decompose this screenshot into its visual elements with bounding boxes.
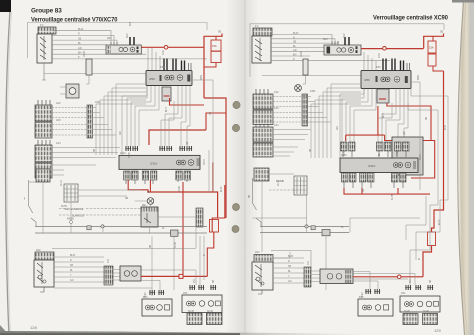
bar top pin group B: [159, 146, 172, 151]
svg-text:31/46: 31/46: [207, 311, 213, 313]
svg-text:Y/GN: Y/GN: [179, 186, 181, 192]
wires C2 C3 to pin column: [52, 108, 87, 136]
ground bus 31 right upper: [260, 226, 349, 228]
svg-text:SB: SB: [78, 37, 82, 40]
red tailgate supply bus right: [353, 276, 423, 278]
svg-text:Groupe 83: Groupe 83: [31, 8, 62, 15]
CEM supply wires up: [148, 48, 160, 70]
svg-text:14/2: 14/2: [274, 92, 279, 94]
tailgate wire labels right: [288, 256, 293, 283]
lock motor connector group M1: [124, 171, 139, 184]
CEM right output fan: [340, 82, 420, 158]
tailgate wire labels: [70, 255, 75, 282]
red tailgate supply bus: [141, 275, 207, 277]
antenna component right: [303, 59, 309, 84]
pin ticks above stack C4: [38, 140, 50, 145]
rear control module: [120, 266, 141, 281]
red riser to fuse right: [424, 34, 444, 49]
left diagram frame: [27, 23, 207, 59]
svg-text:31/55: 31/55: [61, 206, 67, 208]
svg-text:SB: SB: [249, 194, 251, 198]
door connector stack C5: [35, 163, 52, 178]
splice node right ground: [305, 225, 308, 228]
svg-text:16/28: 16/28: [84, 51, 86, 57]
tailgate bottom wire: [54, 287, 152, 289]
svg-text:R: R: [293, 36, 295, 39]
page gutter shading: [0, 0, 1, 1]
ladder connector rear right: [294, 176, 307, 195]
red main riser right side: [423, 71, 444, 277]
ground plate block BR: [423, 314, 438, 325]
svg-text:29/2: 29/2: [127, 33, 129, 38]
pin column connector right: [302, 94, 308, 126]
ground bus 31 upper: [35, 226, 207, 228]
wires C4R C5R: [273, 130, 311, 157]
svg-text:SB: SB: [293, 41, 297, 44]
door module bar 3/110: [119, 155, 200, 169]
svg-text:31/12: 31/12: [61, 180, 63, 186]
svg-text:31/45: 31/45: [392, 194, 394, 200]
svg-text:SB: SB: [70, 265, 74, 267]
ground junction box right: [322, 230, 330, 236]
red square splice: [179, 274, 183, 278]
svg-text:4/56: 4/56: [160, 67, 165, 69]
tailgate connector C6R: [254, 255, 273, 263]
bus risers right page: [308, 84, 362, 158]
svg-text:SB: SB: [426, 116, 428, 120]
svg-text:W/O SUNROOF: W/O SUNROOF: [65, 207, 84, 211]
svg-text:X/30: X/30: [379, 53, 381, 58]
driver door lock unit right: [392, 137, 423, 175]
wire colour labels: [78, 28, 84, 59]
fuse internal wires right: [433, 36, 444, 71]
siren module circle component: [60, 84, 79, 98]
ground bus 31 right lower: [260, 232, 349, 234]
bottom shadow: [0, 0, 1, 1]
red wire from relay to side bus: [170, 98, 205, 105]
svg-text:C301: C301: [95, 102, 101, 104]
CEM output harness fan: [122, 80, 213, 155]
wires C4 C5 right: [52, 148, 120, 176]
red supply bus under motors: [148, 192, 218, 218]
door connector stack C3R: [253, 110, 273, 125]
small circle unit right: [295, 85, 302, 92]
svg-text:SB: SB: [150, 244, 152, 248]
svg-text:15/1: 15/1: [410, 278, 412, 283]
relay below CEM right: [377, 89, 389, 103]
bottom center unit box horn: [182, 295, 222, 313]
red wire to rear lock: [207, 232, 214, 276]
svg-text:15/1: 15/1: [194, 278, 196, 283]
door connector stack C4: [35, 145, 52, 162]
svg-text:4/56: 4/56: [364, 78, 370, 82]
splice node on red wire right: [383, 47, 387, 51]
bottom unit pins BR: [405, 285, 433, 290]
wire colour labels right: [293, 32, 299, 61]
door connector stack C4R: [253, 127, 273, 142]
svg-text:40068: 40068: [67, 218, 74, 221]
svg-text:15/1: 15/1: [401, 293, 406, 295]
door connector stack C2R: [253, 94, 273, 109]
switch unit S80R driver door lock switch: [252, 36, 271, 63]
svg-text:KL30: KL30: [439, 219, 441, 225]
svg-text:Verrouillage centralisé XC90: Verrouillage centralisé XC90: [373, 14, 449, 21]
svg-text:BL/R: BL/R: [78, 28, 84, 31]
svg-text:BN: BN: [293, 54, 297, 57]
ground plate block B: [207, 313, 223, 325]
tailgate pin connector right: [304, 267, 311, 287]
tailgate top feed wire right: [271, 251, 311, 268]
svg-text:X/30: X/30: [163, 50, 165, 55]
tailgate lock unit: [34, 260, 54, 292]
pin ticks above stack C2: [38, 100, 50, 105]
wire harness switch to receiver right: [271, 35, 390, 61]
svg-text:15A: 15A: [212, 44, 217, 48]
lock motor connector group M2: [142, 171, 157, 184]
svg-text:3/110: 3/110: [120, 153, 126, 155]
rear door connector block right: [254, 168, 269, 181]
wire labels left page vertical: [24, 21, 223, 297]
svg-text:GR: GR: [293, 49, 297, 52]
red feed wire to door modules: [149, 130, 206, 145]
pin to module link wires: [113, 270, 120, 281]
interior lamp switch circle: [147, 198, 154, 207]
keypad receiver unit right: [324, 45, 361, 55]
svg-text:GN: GN: [120, 131, 122, 135]
red bus under motors right: [344, 188, 430, 194]
antenna component 86: [86, 59, 92, 84]
svg-text:BN: BN: [78, 52, 82, 55]
svg-text:R15: R15: [130, 21, 132, 26]
tailgate pin connector: [104, 266, 113, 285]
svg-text:14/3: 14/3: [274, 108, 279, 110]
svg-text:GR: GR: [404, 131, 406, 135]
red wire jog inner: [206, 113, 226, 130]
svg-text:31/12: 31/12: [278, 180, 280, 186]
right diagram frame: [250, 24, 444, 77]
red fuse box rear: [210, 220, 219, 233]
svg-text:31/45: 31/45: [188, 311, 194, 313]
svg-text:30/15: 30/15: [204, 159, 206, 165]
wires rear area right: [253, 174, 421, 290]
lock motor connector group M3: [176, 171, 191, 182]
red wire jog right side: [204, 98, 226, 218]
svg-text:SB: SB: [288, 266, 292, 268]
svg-text:BL/R: BL/R: [70, 255, 75, 257]
rear control module right: [320, 269, 353, 284]
svg-text:SUNROOF: SUNROOF: [72, 213, 85, 217]
interior switch line: [29, 180, 36, 227]
gray wires rear module right: [273, 252, 415, 289]
wire labels right page horizontal: [255, 26, 429, 313]
ground plate block A: [187, 313, 202, 325]
lock motor group below M6R: [392, 173, 407, 188]
red wire motor group M1 drop: [128, 180, 148, 192]
red wire motor group M2 drop: [149, 180, 151, 192]
svg-text:3/110: 3/110: [368, 164, 376, 168]
ground drop wires: [43, 182, 174, 296]
rear door connector block: [36, 169, 50, 182]
svg-text:4/56: 4/56: [376, 67, 381, 69]
svg-text:C301: C301: [310, 91, 316, 93]
svg-text:14/4: 14/4: [56, 143, 61, 145]
bottom unit box siren right: [358, 299, 393, 316]
svg-text:KL30: KL30: [221, 186, 223, 192]
svg-text:29/2: 29/2: [344, 33, 346, 38]
svg-text:SB: SB: [363, 188, 365, 192]
relay below CEM: [162, 87, 171, 101]
svg-text:15A: 15A: [429, 46, 434, 50]
svg-text:4/56: 4/56: [149, 77, 155, 81]
svg-text:BL/Y: BL/Y: [166, 107, 168, 112]
tailgate top feed wire: [52, 248, 196, 250]
svg-text:SB: SB: [213, 279, 215, 283]
wire labels right page vertical: [249, 33, 447, 297]
pin ticks above stack C2R: [256, 89, 268, 94]
binder holes: [232, 101, 240, 232]
svg-text:R/BL: R/BL: [201, 74, 203, 80]
connector C1R driver door switch: [253, 28, 272, 36]
red staircase right: [212, 185, 225, 232]
red wire relay to right riser: [387, 103, 435, 178]
tailgate lock unit right: [252, 262, 273, 294]
gray staircase harness right: [406, 89, 448, 286]
long interconnect wire: [44, 73, 146, 75]
svg-text:SB: SB: [125, 198, 129, 200]
svg-text:GR: GR: [78, 47, 82, 50]
ground junction box: [171, 230, 179, 236]
gray wires rear module: [141, 270, 196, 290]
svg-text:128: 128: [30, 325, 37, 330]
door connector stack C5R: [253, 143, 273, 157]
svg-text:19/2: 19/2: [255, 252, 260, 254]
svg-text:14/2: 14/2: [56, 103, 61, 105]
svg-text:R: R: [78, 33, 80, 36]
svg-text:GN: GN: [337, 126, 339, 130]
lock motor group below M5R: [360, 173, 375, 188]
red supply wire 30-feed: [141, 46, 204, 48]
svg-text:SB: SB: [310, 148, 312, 152]
ground junction box right upper: [311, 226, 315, 230]
bottom unit box horn right: [400, 296, 440, 312]
door connector stack C2: [35, 105, 52, 121]
central electronic module CEM right: [361, 71, 411, 89]
door module bar right 3/110: [340, 158, 418, 173]
receiver module unit 29/2: [106, 45, 141, 54]
receiver top pins right: [345, 37, 349, 45]
tailgate harness right: [273, 258, 304, 283]
ground plate block AR: [403, 314, 418, 325]
bottom unit pins AR: [365, 289, 380, 294]
switch unit S80 driver door lock switch: [37, 34, 52, 63]
interior switch line right: [253, 178, 262, 227]
CEM right supply wires up: [364, 52, 376, 71]
svg-text:SB: SB: [430, 279, 432, 283]
lock motor connector group M1R: [341, 142, 356, 157]
switch ground stub: [42, 63, 46, 80]
svg-text:SB: SB: [210, 111, 212, 115]
svg-text:31/50: 31/50: [129, 152, 131, 158]
long interconnect wire right: [262, 75, 361, 77]
svg-text:3/110: 3/110: [150, 162, 158, 166]
svg-text:16/28: 16/28: [301, 51, 303, 57]
bus risers center left: [92, 84, 146, 155]
svg-text:8/22: 8/22: [143, 297, 148, 299]
svg-text:Y/GN: Y/GN: [397, 150, 399, 156]
svg-text:31/45: 31/45: [404, 311, 410, 313]
splice node tailgate right: [397, 275, 401, 279]
tailgate connector C6: [35, 252, 54, 260]
bottom unit pins A: [149, 290, 164, 295]
receiver top pins: [130, 37, 134, 45]
wire harness from switch to receiver: [52, 31, 207, 59]
red supply wire right: [361, 48, 424, 50]
tailgate harness wires: [54, 257, 104, 282]
red fuse box rear right: [428, 232, 436, 246]
svg-text:14/4: 14/4: [274, 125, 279, 127]
bottom unit pins B: [189, 285, 216, 290]
sunroof drop node: [70, 221, 73, 224]
svg-text:15/1: 15/1: [183, 293, 188, 295]
pin ticks above stack C4R: [256, 122, 268, 127]
svg-text:8/22: 8/22: [359, 297, 364, 299]
CEM right top pins: [383, 59, 404, 71]
wires sunroof row: [59, 190, 196, 217]
fuse internal wire: [204, 36, 216, 67]
svg-text:SB: SB: [24, 196, 26, 200]
central electronic module CEM 4/56: [146, 71, 192, 86]
svg-text:31/46: 31/46: [423, 311, 429, 313]
lock motor connector group M2R: [377, 142, 392, 157]
ladder connector rear switch: [64, 184, 78, 202]
svg-text:29/2: 29/2: [107, 38, 112, 40]
right page fore-edge: [0, 0, 1, 1]
pin column right of relay: [196, 208, 203, 227]
fuse F1 15A: [211, 40, 221, 51]
svg-text:14/3: 14/3: [56, 120, 61, 122]
svg-text:BL/R: BL/R: [293, 32, 299, 35]
lock motor group below M4R: [342, 173, 357, 188]
svg-text:REL: REL: [142, 205, 147, 207]
svg-text:3/110: 3/110: [341, 155, 347, 157]
door connector stack C3: [35, 122, 52, 138]
svg-text:GR: GR: [187, 141, 189, 145]
relay ground module: [141, 207, 158, 227]
svg-text:R/BL: R/BL: [418, 74, 420, 80]
splice node on red wire: [164, 46, 168, 50]
svg-text:19/2: 19/2: [36, 250, 41, 252]
pin to module link wires right: [311, 271, 320, 282]
wire labels left page horizontal: [36, 25, 213, 313]
wires C2R C3R: [273, 97, 302, 123]
svg-text:31/45: 31/45: [175, 242, 177, 248]
fuse F2 15A: [211, 51, 221, 62]
connector C1 driver door switch: [38, 27, 56, 34]
svg-text:GN: GN: [288, 281, 292, 283]
svg-text:SB: SB: [94, 148, 96, 152]
pin column connector: [87, 105, 93, 138]
bottom left unit box siren: [142, 299, 172, 316]
svg-text:R 30: R 30: [445, 124, 447, 130]
gray riser pair left page: [196, 150, 213, 285]
red riser to fuse: [204, 34, 222, 99]
ground junction box upper: [87, 226, 91, 230]
lock motor connector group M3R: [395, 142, 410, 157]
svg-text:GN: GN: [70, 280, 74, 282]
red feed to door motors mid right: [346, 106, 406, 141]
svg-text:29/2: 29/2: [323, 39, 328, 41]
svg-text:129: 129: [434, 328, 441, 333]
svg-text:30/15: 30/15: [420, 154, 422, 160]
left scan edge: [0, 0, 10, 335]
splice node on ground bus: [101, 225, 104, 228]
CEM top pins: [164, 59, 185, 71]
bar top pin group A: [125, 146, 138, 151]
bar top pin group C: [179, 146, 192, 151]
fuse F2R 15A: [428, 54, 436, 66]
red riser bar right: [212, 162, 214, 192]
fuse F1R 15A: [428, 41, 436, 53]
red drop motor group M3 to tailgate bus: [182, 182, 184, 276]
svg-text:BL/Y: BL/Y: [383, 113, 385, 118]
ground bus 31 lower: [35, 232, 207, 234]
